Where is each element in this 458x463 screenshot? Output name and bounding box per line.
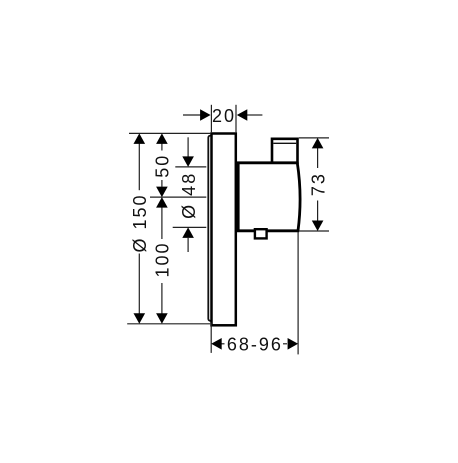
- wall plate (escutcheon, side view): [212, 134, 236, 326]
- tick top of plate (left): [129, 132, 210, 134]
- tick bottom of plate (left): [127, 323, 210, 325]
- dimension 73 (right): [317, 148, 319, 221]
- clip tab below body: [255, 229, 267, 238]
- tick bottom of body (right): [300, 230, 330, 232]
- svg-text:Ø 150: Ø 150: [130, 193, 150, 252]
- front strip of wall plate (side view): [208, 136, 212, 321]
- dimension 50 / 100 (second column, chained): [161, 144, 163, 314]
- thin tick / extension lines: [127, 105, 329, 355]
- dimension 20 (top): [183, 114, 262, 116]
- svg-text:Ø 48: Ø 48: [179, 172, 199, 219]
- svg-text:50: 50: [153, 154, 173, 178]
- tick centerline: [150, 196, 206, 198]
- dimension Ø150 (leftmost column): [138, 144, 140, 314]
- dimension 68-96 (bottom): [222, 343, 288, 345]
- svg-text:73: 73: [308, 172, 328, 196]
- dimension Ø48 (third column, arrows outside): [187, 137, 189, 252]
- valve body: [238, 163, 300, 231]
- tick top of Ø48: [175, 166, 206, 168]
- handle seam line: [273, 142, 296, 144]
- svg-text:20: 20: [212, 106, 236, 126]
- tick top of handle (right): [299, 137, 329, 139]
- extension lines for 20: [210, 105, 212, 132]
- handle (shut-off handle on valve body): [272, 139, 298, 164]
- svg-text:100: 100: [153, 241, 173, 277]
- tick bottom of Ø48: [173, 226, 207, 228]
- svg-text:68-96: 68-96: [227, 334, 283, 354]
- extension lines for 68-96: [210, 323, 212, 353]
